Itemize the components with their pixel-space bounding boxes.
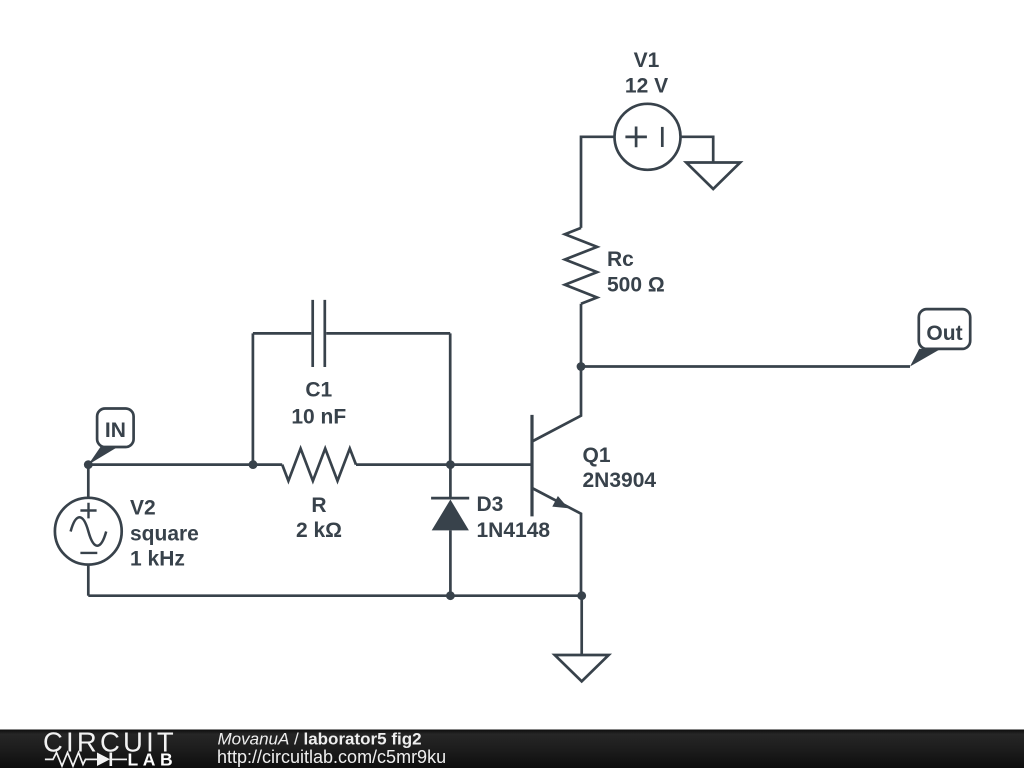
wire base node to diode <box>449 465 452 497</box>
resistor R label <box>296 494 342 542</box>
flag Out box <box>919 309 970 349</box>
diode D3 <box>431 498 469 530</box>
svg-text:R: R <box>311 494 326 517</box>
transistor Q1 emitter arrow <box>552 496 568 508</box>
capacitor C1 label <box>291 379 346 429</box>
svg-text:Out: Out <box>926 322 962 345</box>
node IN junction dot <box>84 460 93 469</box>
svg-text:V1: V1 <box>634 49 660 72</box>
wire IN node to resistor R <box>88 463 282 466</box>
svg-text:IN: IN <box>105 419 126 442</box>
resistor Rc <box>565 228 597 304</box>
svg-text:http://circuitlab.com/c5mr9ku: http://circuitlab.com/c5mr9ku <box>217 747 446 767</box>
node base junction dot <box>446 460 455 469</box>
svg-text:2 kΩ: 2 kΩ <box>296 519 342 542</box>
svg-text:12 V: 12 V <box>625 75 668 98</box>
voltage source V2 <box>55 498 122 565</box>
wire diode to bottom rail <box>449 530 452 595</box>
svg-text:1N4148: 1N4148 <box>477 519 551 542</box>
svg-text:MovanuA / laborator5 fig2: MovanuA / laborator5 fig2 <box>218 729 422 748</box>
transistor Q1 emitter wire <box>532 488 581 596</box>
svg-text:1 kHz: 1 kHz <box>130 548 185 571</box>
flag IN tail <box>88 447 117 465</box>
node diode-bottom junction dot <box>446 591 455 600</box>
transistor Q1 base bar <box>530 415 533 517</box>
wire resistor R to base node <box>356 463 531 466</box>
capacitor C1 <box>313 300 325 367</box>
voltage source V1 label <box>625 49 668 98</box>
voltage source V1 <box>615 104 681 170</box>
svg-text:square: square <box>130 522 199 545</box>
footer bar <box>0 730 1024 768</box>
node emitter junction dot <box>577 591 586 600</box>
svg-text:10 nF: 10 nF <box>291 405 346 428</box>
wire C1 left leg <box>253 333 311 464</box>
svg-text:LAB: LAB <box>128 750 178 768</box>
svg-text:V2: V2 <box>130 497 156 520</box>
resistor R <box>282 449 356 481</box>
flag IN box <box>97 409 134 448</box>
wire emitter node to ground <box>580 596 583 655</box>
svg-text:C1: C1 <box>305 379 332 402</box>
resistor Rc value label <box>607 248 665 296</box>
svg-text:Q1: Q1 <box>583 444 611 467</box>
svg-text:D3: D3 <box>477 493 504 516</box>
wire C1 right leg <box>326 333 450 464</box>
node C1-left junction dot <box>249 460 258 469</box>
wire Rc bottom to out node <box>580 304 583 367</box>
flag Out tail <box>910 349 941 367</box>
ground (V1) <box>686 163 740 190</box>
transistor Q1 label <box>583 444 657 492</box>
diode D3 label <box>477 493 551 542</box>
ground (bottom) <box>555 655 609 681</box>
svg-text:Rc: Rc <box>607 248 634 271</box>
wire out node to Out flag <box>581 365 910 368</box>
node out junction dot <box>577 362 586 371</box>
voltage source V2 label <box>130 497 199 571</box>
svg-text:2N3904: 2N3904 <box>583 469 657 492</box>
wire V1 left to Rc top <box>581 137 615 228</box>
transistor Q1 collector wire <box>532 367 581 442</box>
wire IN node to V2 <box>87 465 90 498</box>
logo resistor-diode squiggle <box>45 753 127 767</box>
wire bottom rail <box>88 594 581 597</box>
wire V2 bottom <box>87 565 90 596</box>
svg-text:500 Ω: 500 Ω <box>607 274 665 297</box>
wire V1 right to ground <box>681 137 714 163</box>
